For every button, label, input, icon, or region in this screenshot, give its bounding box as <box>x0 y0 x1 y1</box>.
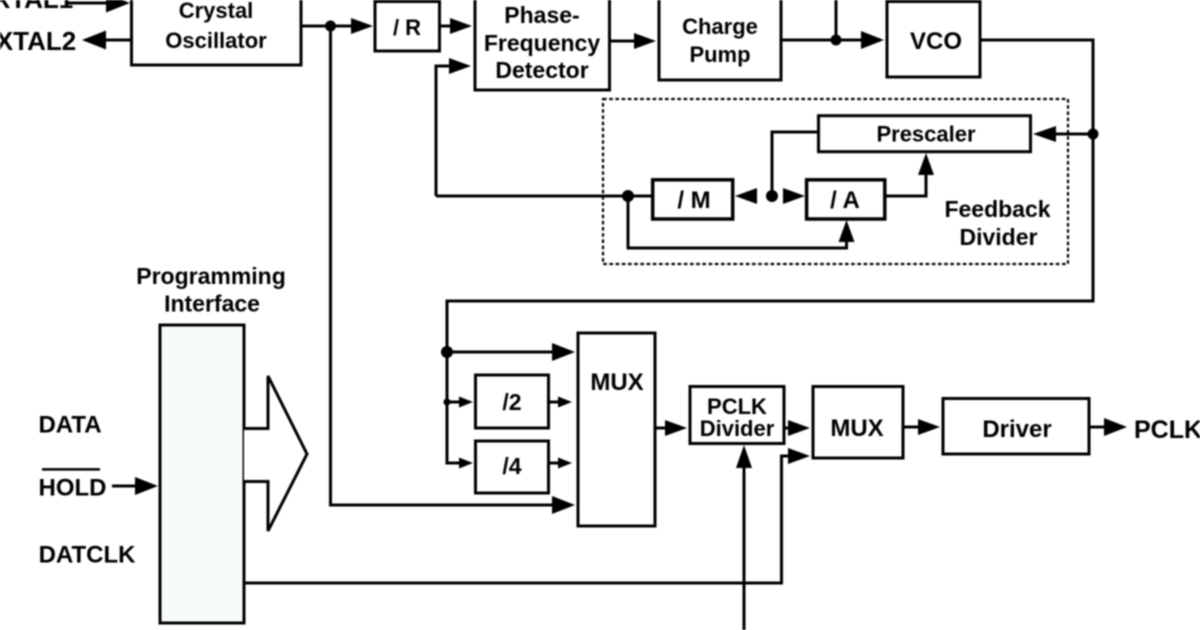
arrowhead bidirectional into /A left edge (pointing right) <box>783 188 805 204</box>
wire /M output up to Phase-Frequency Detector second input <box>436 66 456 196</box>
svg-text:Driver: Driver <box>982 416 1051 443</box>
wire prescaler output link down to /M-/A node <box>772 132 817 196</box>
wire loop filter riser (cut at top) <box>835 0 838 40</box>
node feedback to Prescaler <box>1088 129 1099 140</box>
wire feedback node to MUX1 top input <box>447 351 560 354</box>
block /A divider <box>807 180 885 219</box>
block /2 divider <box>476 375 549 428</box>
block Phase-Frequency Detector <box>475 0 610 90</box>
svg-text:MUX: MUX <box>830 415 883 442</box>
wire /4 output to MUX1 <box>549 462 562 465</box>
svg-text:Interface: Interface <box>164 291 260 317</box>
block PCLK Divider <box>690 387 784 444</box>
arrowhead MUX1 into PCLK Divider <box>665 420 687 436</box>
svg-text:/ M: / M <box>677 187 710 214</box>
block Driver <box>943 399 1089 455</box>
block /4 divider <box>476 441 549 493</box>
arrowhead up into PCLK Divider bottom <box>736 445 752 468</box>
svg-text:/2: /2 <box>502 389 521 415</box>
block Programming Interface <box>160 325 244 623</box>
wire Driver output to PCLK <box>1089 426 1107 429</box>
svg-text:Oscillator: Oscillator <box>165 28 267 53</box>
arrowhead XTAL1 into Crystal Oscillator <box>106 0 130 13</box>
arrowhead into VCO <box>861 31 884 49</box>
arrowhead up into /A bottom input <box>839 220 855 242</box>
svg-text:Divider: Divider <box>700 416 775 441</box>
block Crystal Oscillator <box>132 0 302 65</box>
svg-text:VCO: VCO <box>910 28 962 55</box>
svg-text:XTAL2: XTAL2 <box>0 26 76 56</box>
arrowhead into MUX1 top input <box>552 343 575 361</box>
arrowhead bidirectional into /M right edge (pointing left) <box>735 188 757 204</box>
block VCO <box>887 2 980 78</box>
arrowhead into MUX2 second input <box>788 448 810 464</box>
wire /M node down to /A bottom input <box>628 196 847 248</box>
wire Crystal Oscillator to XTAL2 <box>101 39 131 42</box>
svg-text:Charge: Charge <box>682 14 758 39</box>
arrowhead small /2 into MUX1 <box>558 397 572 408</box>
wire HOLD input arrow <box>112 485 139 488</box>
block MUX2 <box>813 387 903 459</box>
wire MUX1 output to PCLK Divider <box>655 427 668 430</box>
arrowhead up into Prescaler bottom input <box>918 153 934 175</box>
wire Phase-Frequency Detector to Charge Pump <box>610 40 642 43</box>
wire Charge Pump to VCO <box>781 39 868 42</box>
wire MUX2 output to Driver <box>903 426 921 429</box>
svg-text:Programming: Programming <box>136 263 286 289</box>
arrowhead into Charge Pump <box>634 33 656 49</box>
block Charge Pump <box>659 0 781 80</box>
block /R divider <box>375 2 440 52</box>
wire PCLK Divider bottom input (cut at bottom) <box>743 464 746 630</box>
arrowhead PCLK Divider into MUX2 <box>788 420 810 436</box>
wire PCLK Divider output to MUX2 <box>784 427 793 430</box>
wire /2 output to MUX1 <box>549 401 562 404</box>
node Charge Pump / VCO / loop filter <box>831 35 842 46</box>
svg-text:MUX: MUX <box>590 369 643 396</box>
node /2 branch (small) <box>444 399 451 406</box>
arrowhead /R into PFD <box>450 18 472 34</box>
svg-text:Feedback: Feedback <box>944 196 1050 222</box>
arrowhead XTAL2 out <box>82 31 106 50</box>
wire VCO feedback: right, down, across, down to /4 spur <box>447 40 1093 463</box>
wire Programming Interface to MUX2 second input <box>244 456 793 583</box>
arrowhead into Prescaler right (pointing left) <box>1033 126 1056 142</box>
arrowhead bypass into MUX1 lower input <box>552 496 575 514</box>
svg-text:DATCLK: DATCLK <box>39 542 137 569</box>
programming interface block arrow <box>244 376 307 531</box>
wire node to /2 input <box>447 401 462 404</box>
arrowhead small into /2 <box>459 397 473 408</box>
wire Crystal Oscillator output to /R <box>301 25 356 28</box>
wire feedback node to Prescaler right input <box>1053 133 1093 136</box>
wire XTAL1 to Crystal Oscillator <box>68 2 112 5</box>
svg-text:HOLD: HOLD <box>39 475 107 502</box>
svg-text:Phase-: Phase- <box>504 2 579 28</box>
svg-text:/ A: / A <box>830 187 860 214</box>
node MUX1 top branch <box>441 346 453 358</box>
svg-text:Pump: Pump <box>689 42 750 67</box>
wire reference bypass: node to MUX1 lower input <box>331 26 561 505</box>
arrowhead MUX2 into Driver <box>918 419 940 435</box>
node after Crystal Oscillator <box>325 21 336 32</box>
svg-text:/4: /4 <box>502 453 521 479</box>
node between /M and /A <box>766 190 778 202</box>
feedback divider dashed box <box>603 99 1068 264</box>
svg-text:Crystal: Crystal <box>179 0 254 23</box>
arrowhead Driver to PCLK <box>1104 418 1127 436</box>
arrowhead into /R <box>351 18 373 34</box>
svg-text:Frequency: Frequency <box>484 30 601 56</box>
svg-text:Prescaler: Prescaler <box>876 122 976 147</box>
node /M input <box>622 190 634 202</box>
HOLD overline <box>42 468 100 471</box>
svg-text:/ R: / R <box>393 15 421 40</box>
arrowhead into PFD second input <box>449 58 471 74</box>
block Prescaler <box>819 116 1031 152</box>
svg-text:DATA: DATA <box>38 412 101 439</box>
svg-text:PCLK: PCLK <box>1134 416 1200 444</box>
wire /A output up to Prescaler bottom input <box>885 172 926 196</box>
wire /R to Phase-Frequency Detector <box>440 25 456 28</box>
block MUX1 <box>578 333 655 526</box>
arrowhead HOLD into Programming Interface <box>135 477 158 495</box>
svg-text:Divider: Divider <box>960 224 1038 250</box>
wire /M row from PFD riser to /M box <box>436 195 652 198</box>
arrowhead small /4 into MUX1 <box>558 458 572 469</box>
svg-text:XTAL1: XTAL1 <box>0 0 73 14</box>
svg-text:Detector: Detector <box>495 57 588 83</box>
arrowhead small into /4 <box>459 458 473 469</box>
arrowheads <box>82 0 1127 514</box>
block /M divider <box>653 180 733 219</box>
